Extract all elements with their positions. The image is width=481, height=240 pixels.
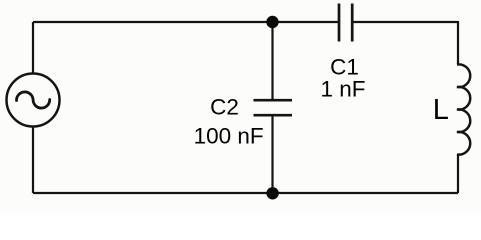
wire: left side below source (32, 127, 34, 194)
wire: top-left segment (source to top node) (33, 21, 273, 23)
wire: right side bottom (inductor to bottom-right corner) (457, 154, 459, 193)
wire: middle branch upper (top node down to C2) (271, 22, 273, 99)
label C2 (210, 95, 239, 120)
svg-text:C2: C2 (210, 95, 239, 120)
svg-text:100 nF: 100 nF (194, 124, 264, 149)
value label 1 nF (320, 77, 365, 102)
capacitor C2 (254, 100, 293, 115)
label L (433, 94, 449, 126)
wire: bottom segment (bottom node to bottom-left corner) (33, 192, 273, 194)
value label 100 nF (194, 124, 264, 149)
wire: left side above source (32, 22, 34, 74)
inductor L (457, 64, 470, 154)
capacitor C1 (339, 4, 352, 42)
wire: bottom segment (bottom-right corner to bottom node) (273, 192, 459, 194)
svg-text:L: L (433, 94, 449, 126)
AC source (sine-wave generator) (7, 74, 60, 127)
svg-text:1 nF: 1 nF (320, 77, 365, 102)
label C1 (330, 55, 359, 80)
node: top junction dot (266, 16, 278, 28)
wire: right side top (corner down to inductor) (457, 21, 459, 64)
wire: middle branch lower (C2 down to bottom node) (271, 116, 273, 193)
wire: top-middle segment (top node to C1 left plate) (273, 21, 340, 23)
node: bottom junction dot (266, 187, 278, 199)
wire: top-right segment (C1 right plate to top-right corner) (352, 21, 458, 23)
